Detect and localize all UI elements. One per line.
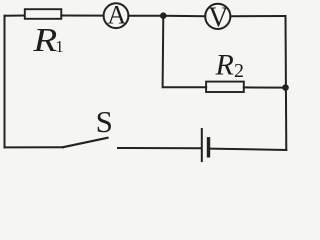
voltmeter V (205, 4, 230, 29)
node junction dot top (160, 12, 167, 19)
svg-text:R: R (32, 20, 57, 58)
wire node down to R2 branch (163, 16, 207, 88)
wire top left segment (5, 15, 25, 17)
svg-text:R: R (215, 49, 234, 82)
wire right vertical (285, 16, 288, 150)
svg-text:1: 1 (55, 37, 64, 56)
switch S blade (63, 138, 108, 147)
svg-text:A: A (107, 1, 126, 30)
wire battery to bottom right corner (210, 149, 286, 150)
resistor R2 (206, 82, 244, 92)
wire switch to battery (118, 147, 201, 149)
svg-text:2: 2 (234, 60, 244, 82)
wire R2 to right junction (244, 86, 286, 88)
wire bottom left to switch (5, 146, 64, 148)
battery positive plate (201, 129, 203, 161)
wire left vertical (4, 16, 6, 148)
ammeter A (104, 3, 129, 28)
node junction dot right (282, 84, 289, 91)
wire node to voltmeter (163, 15, 205, 17)
svg-text:S: S (96, 104, 113, 139)
battery negative plate (207, 139, 210, 156)
resistor R1 (25, 9, 62, 19)
wire voltmeter to top right corner (230, 15, 285, 17)
wire R1 to ammeter (61, 15, 103, 17)
wire ammeter to node (128, 15, 163, 17)
svg-text:V: V (208, 2, 228, 33)
